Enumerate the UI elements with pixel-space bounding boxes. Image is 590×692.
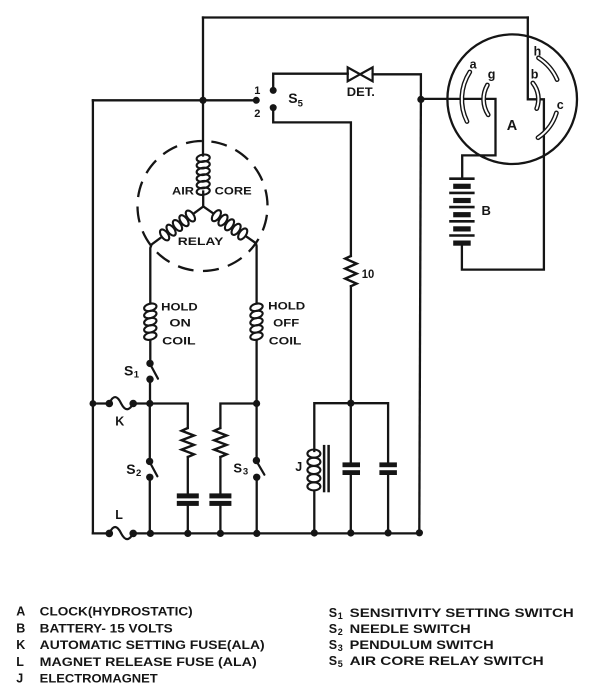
svg-text:2: 2 [254,108,260,120]
svg-text:L: L [16,655,24,669]
svg-text:COIL: COIL [269,336,302,348]
fuse K [106,397,138,409]
switch S2 [146,458,157,481]
legend A [16,605,192,619]
wire S1 to bus [149,379,151,403]
svg-text:2: 2 [338,627,343,637]
wire contact1 to detector [273,74,348,91]
switch S3 [253,457,265,481]
node S2 bottom [147,530,154,537]
label S1 [124,363,140,381]
electromagnet J core [324,445,329,492]
wire J top segment [314,403,388,462]
switch S5 contact 1 dot [270,87,277,94]
wire main right vertical [419,99,421,532]
node clock-left junction [417,96,424,103]
air core relay left coil stub [194,207,204,214]
svg-text:SENSITIVITY SETTING SWITCH: SENSITIVITY SETTING SWITCH [350,606,574,620]
svg-text:RELAY: RELAY [178,236,224,248]
svg-text:L: L [115,508,123,522]
switch S5 contact 2 dot [270,104,277,111]
wire capacitor CD to bottom rail [387,475,389,533]
clock contact arc c [538,113,556,138]
capacitor CC [343,462,361,475]
svg-text:5: 5 [338,659,343,669]
svg-text:A: A [16,605,25,619]
node CB bottom [217,530,224,537]
svg-text:3: 3 [243,467,248,478]
svg-text:S: S [288,90,297,106]
svg-text:g: g [488,68,496,82]
legend S3 [329,638,494,653]
air core relay top coil [196,154,210,163]
legend B [16,621,172,635]
label S3 [233,460,248,477]
svg-text:K: K [115,415,124,429]
svg-text:NEEDLE SWITCH: NEEDLE SWITCH [350,622,471,636]
wire main horizontal bus y=100 [93,99,256,101]
legend S2 [329,622,471,637]
wire capacitor CA to bottom rail [187,506,189,534]
node CC bottom [347,529,354,536]
label S2 [126,461,141,479]
svg-text:B: B [482,203,491,218]
wire contact2 to resistor-10 branch [273,108,351,256]
battery B [449,179,474,246]
detector DET bowtie [348,67,373,81]
wire hold-off coil to S3 [255,340,257,461]
svg-text:1: 1 [254,85,260,97]
electromagnet J coil [307,450,320,458]
wire R2 to capacitor CB [219,457,221,493]
node hold-off leg junction [253,400,260,407]
wire S1 leg to S2 [149,404,151,462]
svg-text:S: S [124,363,133,379]
wire capacitor CC to bottom rail [350,475,352,533]
svg-text:AUTOMATIC SETTING FUSE(ALA): AUTOMATIC SETTING FUSE(ALA) [40,638,265,652]
svg-text:OFF: OFF [273,318,299,330]
wire fuse K to resistor R1 [133,404,188,429]
capacitor CB [209,493,231,506]
svg-text:CORE: CORE [215,185,252,197]
svg-text:S: S [329,622,337,636]
svg-text:ON: ON [169,318,191,330]
wire top rail [203,16,528,18]
svg-text:S: S [329,638,337,652]
svg-text:J: J [295,460,302,474]
clock contact arc b [533,83,539,109]
svg-text:3: 3 [338,643,343,653]
wire left rail [92,100,94,533]
svg-text:1: 1 [338,611,343,621]
wire bus to fuse K [93,402,109,404]
hold-on coil [143,302,157,312]
legend L [16,655,256,669]
clock contact arc g [484,85,489,115]
svg-text:HOLD: HOLD [268,301,305,313]
wire detector to right vertical elbow [373,74,421,99]
svg-text:CLOCK(HYDROSTATIC): CLOCK(HYDROSTATIC) [40,605,193,619]
wire R2 top hook to bus segment [220,404,256,429]
svg-text:S: S [233,460,242,475]
legend S1 [329,606,574,621]
wire relay top coil tail [202,192,204,207]
svg-text:HOLD: HOLD [161,301,198,313]
clock contact arc h [539,58,558,80]
svg-text:A: A [507,118,518,134]
svg-text:S: S [329,654,337,668]
wire battery bottom loop to top rail [462,18,544,270]
legend S5 [329,654,544,669]
svg-text:10: 10 [362,269,375,281]
capacitor CD [379,462,397,475]
svg-text:DET.: DET. [347,87,375,99]
svg-text:K: K [16,638,25,652]
wire S3 to bottom rail [256,477,258,533]
svg-text:b: b [531,68,539,82]
label S5 [288,90,303,110]
switch S5 pole dot [253,97,260,104]
air core relay dashed circle [129,133,276,280]
wire S2 to bottom rail [149,477,151,533]
svg-text:5: 5 [298,99,304,110]
air core relay right coil exit [247,237,257,304]
svg-text:2: 2 [136,468,141,479]
capacitor CA [177,493,199,506]
node relay feed junction [199,97,206,104]
svg-text:S: S [329,606,337,620]
wire resistor-10 leg to capacitor CC [350,403,352,462]
svg-text:BATTERY- 15 VOLTS: BATTERY- 15 VOLTS [40,621,173,635]
svg-text:1: 1 [134,370,140,381]
resistor R2 [214,428,226,457]
node left-rail branch [90,400,97,407]
air core relay left coil [184,209,197,223]
clock contact arc a [462,72,470,122]
wire R1 to capacitor CA [187,457,189,493]
svg-text:COIL: COIL [162,335,196,347]
wire bottom rail left [93,532,109,534]
svg-text:AIR CORE RELAY SWITCH: AIR CORE RELAY SWITCH [350,654,544,668]
wire J to bottom rail [313,491,315,534]
resistor R1 [182,428,194,457]
resistor 10 [345,256,356,286]
air core relay right coil stub [203,207,213,214]
node J bottom [311,529,318,536]
svg-text:a: a [470,58,478,72]
svg-text:S: S [126,461,135,477]
svg-text:MAGNET RELEASE FUSE (ALA): MAGNET RELEASE FUSE (ALA) [40,655,257,669]
wire clock left lead to battery [421,99,496,179]
air core relay right coil [210,209,223,223]
wire capacitor CB to bottom rail [219,506,221,534]
svg-text:PENDULUM SWITCH: PENDULUM SWITCH [350,638,494,652]
fuse L [106,527,138,539]
switch S1 [146,360,158,383]
node CD bottom [385,529,392,536]
wire bottom rail [133,532,419,534]
node right vertical bottom [416,529,423,536]
svg-text:h: h [534,45,542,59]
node mid cross junction [347,400,354,407]
legend J [16,672,158,686]
legend K [16,638,264,652]
svg-text:AIR: AIR [172,185,194,197]
node S1 leg junction [146,400,153,407]
clock A circle [447,34,577,164]
hold-off coil [250,302,264,312]
node S3 bottom [253,530,260,537]
air core relay left coil exit [150,237,161,303]
wire resistor-10 to lower bus [350,286,352,403]
svg-text:c: c [557,98,564,112]
wire relay feed vertical [202,18,204,156]
node CA bottom [184,530,191,537]
svg-text:B: B [16,621,25,635]
svg-text:J: J [16,672,23,686]
wire hold-on coil to S1 [149,340,151,363]
svg-text:ELECTROMAGNET: ELECTROMAGNET [40,672,159,686]
